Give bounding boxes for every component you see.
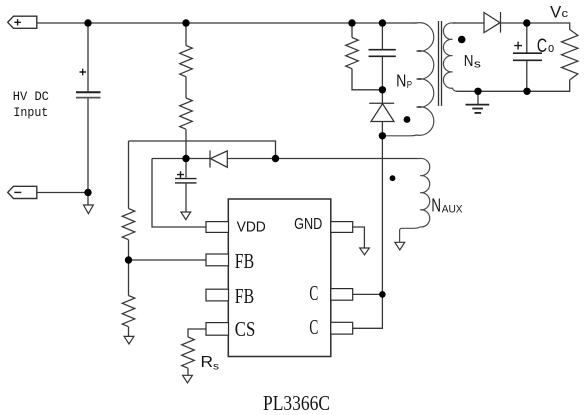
svg-text:CS: CS — [235, 317, 256, 341]
svg-text:s: s — [213, 361, 219, 373]
svg-text:C: C — [537, 35, 547, 57]
svg-text:C: C — [309, 281, 318, 305]
svg-text:GND: GND — [294, 216, 322, 233]
svg-text:HV DC: HV DC — [13, 89, 49, 104]
svg-text:s: s — [474, 58, 482, 70]
svg-text:o: o — [548, 41, 554, 55]
svg-text:P: P — [407, 80, 413, 91]
svg-text:c: c — [562, 8, 569, 20]
svg-text:FB: FB — [235, 249, 254, 273]
svg-text:R: R — [201, 354, 214, 371]
svg-text:C: C — [309, 315, 318, 339]
svg-text:V: V — [550, 3, 561, 22]
svg-text:FB: FB — [235, 284, 254, 308]
svg-text:N: N — [396, 71, 406, 91]
svg-text:N: N — [464, 53, 474, 70]
svg-text:PL3366C: PL3366C — [263, 391, 330, 415]
svg-text:AUX: AUX — [442, 203, 463, 215]
svg-text:Input: Input — [13, 105, 48, 120]
svg-text:VDD: VDD — [237, 219, 266, 235]
svg-text:N: N — [431, 195, 441, 216]
